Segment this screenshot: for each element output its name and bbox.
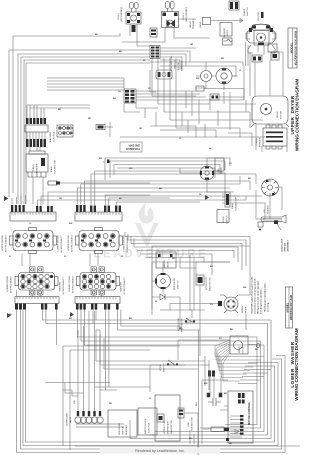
coil L1 windings [166, 2, 175, 12]
upper dryer title line2 [295, 79, 300, 152]
svg-text:*CAUTION: Label all wires prio: *CAUTION: Label all wires prior to dis- [251, 276, 254, 314]
svg-text:DOOR: DOOR [223, 216, 225, 223]
washer door switch [160, 360, 178, 372]
svg-text:TO/LINECO: TO/LINECO [126, 147, 140, 151]
wire harness mid [47, 78, 124, 90]
block A right label [58, 234, 64, 252]
wire left pads drop [12, 195, 26, 204]
wire loop 9 [78, 310, 258, 425]
gas valve coils box [215, 158, 224, 174]
wire strip4 drops [42, 310, 200, 391]
svg-text:BLADDER: BLADDER [125, 424, 128, 435]
svg-text:DRIVE: DRIVE [239, 346, 241, 353]
wire washer frame [45, 346, 180, 450]
dw label [74, 399, 76, 404]
arrow node C [70, 312, 74, 317]
pressure bladder box [108, 410, 137, 437]
sweep wire s8 [95, 171, 220, 205]
door lock wax motor [196, 275, 212, 291]
svg-text:DOOR LOCK: DOOR LOCK [282, 238, 284, 251]
svg-text:SWITCH: SWITCH [123, 426, 125, 435]
svg-text:IGNITOR: IGNITOR [258, 12, 260, 21]
blk labels [196, 401, 198, 406]
svg-text:WIRING CONNECTION DIAGRAM: WIRING CONNECTION DIAGRAM [294, 328, 299, 401]
svg-text:LOWER DRYER: LOWER DRYER [58, 235, 60, 252]
washer drive motor [230, 336, 260, 354]
svg-text:CONTROL: CONTROL [149, 422, 151, 433]
relay small box [96, 125, 113, 130]
wire top-left bus L4 [21, 57, 150, 204]
strip3 [15, 297, 59, 304]
svg-text:WASHER: WASHER [120, 282, 123, 292]
svg-text:WH: WH [129, 168, 133, 170]
aux text box 2 [138, 408, 157, 435]
svg-text:CONNECTOR: CONNECTOR [192, 417, 194, 431]
strip2 pads [76, 205, 121, 212]
motor control box [226, 391, 253, 443]
drain pump [218, 295, 248, 313]
wire washer mid bundle [96, 330, 209, 369]
capacitor symbol left of mc [207, 393, 222, 406]
interconnect block A [10, 228, 57, 254]
machine control lower pads [26, 139, 46, 147]
svg-text:VALVE: VALVE [199, 21, 202, 28]
svg-text:DISPENSER: DISPENSER [168, 421, 170, 434]
igniter assembly [246, 24, 276, 45]
wire loop 7 [85, 310, 265, 432]
svg-text:WAX MOTOR: WAX MOTOR [209, 277, 212, 291]
svg-text:servicing.: servicing. [267, 302, 270, 312]
svg-text:MAIN: MAIN [50, 166, 53, 172]
wire mc verticals up [27, 105, 90, 118]
caution text block [251, 276, 270, 314]
svg-text:INTERCONNECT: INTERCONNECT [61, 234, 63, 252]
coil L1 body [162, 12, 179, 28]
svg-text:WH: WH [243, 287, 247, 289]
valve coil small box [150, 28, 157, 37]
main connector lower-right [222, 192, 238, 211]
svg-text:MODEL: MODEL [289, 42, 293, 53]
heater label [264, 205, 270, 214]
interconnect block B [76, 228, 123, 254]
wire washer bus drops [180, 258, 230, 275]
arrow node A [4, 196, 9, 201]
wire top-left bus L2 [13, 33, 120, 193]
wire drain pump [170, 255, 250, 330]
wire J2 to motor [160, 48, 196, 70]
svg-text:MOTOR: MOTOR [281, 110, 283, 119]
wire bundle vertical left [199, 330, 210, 455]
svg-text:INTERCONNECT: INTERCONNECT [6, 234, 8, 252]
coil L2 body [126, 12, 141, 32]
washer pressure switch [155, 273, 180, 290]
svg-text:WH: WH [69, 223, 73, 225]
wire long loop 2 [21, 310, 282, 450]
wire loop 6 [93, 310, 268, 436]
strip4 pads [76, 304, 119, 310]
wire dryer mid mesh [150, 58, 263, 137]
svg-text:CONNECTOR: CONNECTOR [236, 197, 238, 211]
flame detector box [268, 44, 279, 60]
wire blocks to strips [17, 254, 102, 297]
lower dryer frame rect1 [105, 158, 230, 180]
svg-text:FLAME: FLAME [243, 8, 246, 16]
wire top-left bus L5 [24, 60, 150, 204]
svg-text:WH: WH [196, 78, 200, 80]
small transformer lower [178, 408, 184, 418]
broken belt switch [156, 70, 172, 79]
wire long loop 3 [23, 310, 278, 446]
thermal fuse [196, 86, 214, 91]
sweep wire s2 [41, 196, 240, 206]
connector bar lower right [203, 427, 239, 434]
node J3 [103, 160, 110, 164]
block B right label [124, 234, 130, 252]
interconnect block D [77, 267, 120, 296]
tolineco text [126, 144, 140, 152]
wire long loop 1 [17, 310, 286, 453]
svg-text:ASSEMBLY: ASSEMBLY [287, 240, 290, 252]
svg-text:WAX MOTOR: WAX MOTOR [170, 420, 173, 434]
flame switch label [243, 7, 249, 16]
svg-text:INTERCONNECT: INTERCONNECT [124, 276, 126, 294]
svg-text:COIL 2: COIL 2 [118, 12, 120, 20]
wire long loop 4 [26, 310, 275, 443]
svg-text:CONNECTOR: CONNECTOR [55, 160, 57, 174]
svg-text:TRANS-: TRANS- [32, 164, 35, 172]
svg-text:LOWER DRYER: LOWER DRYER [69, 275, 71, 292]
terminal strip 1 [10, 212, 56, 221]
svg-text:UPPER DRYER: UPPER DRYER [2, 235, 4, 251]
dispenser valve label [67, 412, 73, 425]
wire washer mid [152, 262, 230, 330]
svg-text:INTERCONNECT: INTERCONNECT [11, 275, 13, 293]
svg-text:VALVE: VALVE [69, 416, 72, 423]
line connector label [188, 417, 194, 431]
svg-text:BURNER: BURNER [224, 27, 226, 37]
igniter bracket [248, 45, 275, 53]
sweep wire s11 [116, 202, 200, 205]
sweep wire s7 [91, 174, 256, 205]
connector FA pads [118, 89, 136, 103]
svg-text:HEATER: HEATER [267, 205, 270, 214]
wire coil2 drop [122, 19, 210, 42]
svg-text:BLK: BLK [196, 401, 198, 406]
svg-text:WH: WH [204, 383, 208, 385]
svg-text:*Verify proper operation after: *Verify proper operation after [264, 283, 267, 312]
dispenser valve solenoids [75, 411, 124, 427]
watermark logo flame [135, 201, 159, 248]
flame sensor symbol [223, 38, 233, 45]
svg-text:PRESSURE: PRESSURE [119, 422, 121, 435]
wire dryer mid mesh2 [124, 100, 252, 146]
svg-text:DISPENSER: DISPENSER [67, 412, 69, 425]
wire mc area [202, 370, 228, 420]
door switch label box [217, 210, 229, 223]
svg-text:2ND DVR: 2ND DVR [128, 144, 140, 148]
upper dryer title [290, 95, 295, 134]
main harness connector label [50, 160, 57, 174]
wire dispenser up [65, 311, 100, 411]
svg-text:COIL 1: COIL 1 [183, 12, 185, 20]
svg-text:INTERCONNECT: INTERCONNECT [72, 234, 74, 252]
svg-text:SWITCH: SWITCH [164, 363, 166, 372]
coil L1 label [183, 6, 188, 22]
ignitor label [258, 12, 264, 21]
svg-text:connection when servicing cont: connection when servicing controls. [254, 278, 257, 314]
wire loop 8 [81, 310, 261, 429]
svg-text:VALVE: VALVE [189, 21, 192, 28]
sweep wire s10 [109, 198, 170, 205]
model box top [288, 28, 297, 68]
sweep wire s1 [38, 196, 247, 206]
svg-text:and dangerous operation.: and dangerous operation. [260, 288, 263, 314]
sweep wire s9 [105, 195, 150, 205]
secondary valve box [199, 18, 243, 29]
interconnect block C [15, 267, 58, 296]
leak pressure switch circle [200, 166, 214, 180]
burner body box [220, 23, 232, 38]
wire code labels [9, 34, 258, 445]
block A left label [2, 234, 8, 252]
transformer upper [255, 125, 287, 149]
svg-text:DOOR LOCK: DOOR LOCK [206, 276, 208, 290]
svg-text:WATER LEVEL: WATER LEVEL [144, 418, 147, 434]
svg-text:WASHER: WASHER [59, 282, 62, 292]
svg-text:Rendered by LeadVenture, Inc.: Rendered by LeadVenture, Inc. [135, 449, 185, 453]
wire transformer drops [30, 147, 43, 204]
door latch label [282, 238, 290, 251]
coil L2 label [118, 6, 123, 22]
aux connector pads washer [208, 371, 215, 377]
washer section frame [152, 246, 250, 315]
motor winding circle small [196, 62, 216, 82]
svg-text:INTERCONNECT: INTERCONNECT [127, 234, 129, 252]
drive motor dryer circle [216, 68, 238, 90]
hi-limit thermostat [252, 55, 262, 62]
svg-text:LINE: LINE [188, 422, 190, 427]
svg-text:INTERCONNECT: INTERCONNECT [63, 276, 65, 294]
svg-text:BODY: BODY [227, 29, 229, 36]
wire FA to right [124, 78, 244, 100]
sweep wire s6 [84, 181, 250, 204]
svg-text:LOWER DRYER: LOWER DRYER [124, 235, 126, 252]
model box lower [286, 287, 293, 328]
svg-text:MOTOR: MOTOR [243, 345, 245, 354]
svg-text:GAS: GAS [217, 168, 220, 173]
transformer lower-left [26, 151, 48, 177]
svg-text:DRAIN: DRAIN [241, 306, 244, 313]
water valve box [156, 252, 176, 268]
block D right label [120, 276, 127, 294]
svg-text:SWITCH: SWITCH [247, 7, 249, 16]
block B left label [68, 234, 74, 252]
wire top-left bus L3 [18, 54, 150, 204]
svg-text:UPPER DRYER: UPPER DRYER [68, 235, 70, 251]
svg-text:MAIN: MAIN [231, 203, 234, 209]
svg-text:MOTOR CONTROL: MOTOR CONTROL [247, 401, 251, 425]
lower dryer frame rect2 [110, 161, 225, 178]
svg-text:MLG45PDAGW, AGK, BWW: MLG45PDAGW, AGK, BWW [294, 30, 297, 65]
hi-limit connector pads [229, 1, 239, 10]
upper tub dispenser box [155, 395, 180, 441]
svg-text:INTERCONNECT: INTERCONNECT [73, 275, 75, 293]
svg-text:PRESSURE: PRESSURE [174, 277, 176, 290]
sweep wire s3 [48, 192, 234, 206]
wire right side verticals [244, 52, 287, 152]
wire igniter down [246, 42, 265, 66]
svg-text:CONTROL: CONTROL [54, 131, 56, 142]
sweep wire s5 [81, 176, 240, 204]
block D left label [69, 275, 75, 293]
lower dryer frame rect3 [114, 165, 220, 176]
svg-text:TRANS-: TRANS- [255, 138, 258, 146]
svg-text:WATER: WATER [163, 260, 166, 268]
machine control pads top [26, 118, 46, 124]
door lock switch washer [178, 317, 195, 332]
svg-text:MODEL: MODEL [286, 302, 290, 312]
arrow node B [7, 313, 11, 318]
svg-text:PUMP: PUMP [246, 306, 248, 313]
wire tolineco box [110, 122, 265, 152]
svg-text:WIRING CONNECTION DIAGRAM: WIRING CONNECTION DIAGRAM [295, 79, 300, 152]
wire top-left bus L6 [26, 63, 150, 204]
wire door area [256, 174, 282, 219]
wire washer top bus [125, 232, 250, 275]
check valve symbol [160, 294, 165, 300]
strip1 pads [11, 205, 53, 212]
wire top-left bus L1 [9, 50, 150, 197]
wire lower right misc [184, 413, 202, 455]
wire coil1 drop [130, 24, 150, 46]
machine control label [49, 131, 56, 142]
lower washer title line2 [294, 328, 299, 401]
rendered by bar [75, 446, 300, 454]
svg-text:(SECONDARY): (SECONDARY) [185, 6, 188, 22]
arrow node D [205, 195, 209, 200]
svg-text:MBF6500XXXW / A&M: MBF6500XXXW / A&M [290, 295, 293, 320]
svg-text:MACHINE: MACHINE [49, 131, 52, 142]
machine control body [25, 125, 48, 139]
svg-text:PRIMARY: PRIMARY [192, 19, 195, 29]
svg-text:UPPER TUB: UPPER TUB [164, 421, 166, 434]
svg-text:SWITCH: SWITCH [178, 280, 180, 289]
sweep wire s4 [77, 188, 230, 204]
block C left label [7, 275, 13, 293]
moisture sensor connector [57, 125, 73, 137]
drive motor upper right [251, 96, 289, 127]
svg-text:LOWER DRYER: LOWER DRYER [7, 275, 9, 292]
terminal strip 2 [75, 212, 122, 221]
centrifugal switch labels [170, 55, 184, 71]
wire dispenser bus [63, 383, 150, 397]
valve primary label [189, 19, 195, 29]
svg-text:Wiring errors can cause improp: Wiring errors can cause improper [257, 281, 260, 314]
wire door lock area [150, 285, 230, 392]
coil L2 windings [130, 3, 139, 13]
svg-text:FORMER: FORMER [260, 137, 262, 147]
svg-text:(SECONDARY): (SECONDARY) [120, 6, 123, 22]
strip4 [75, 297, 120, 304]
fuse inline [47, 181, 150, 185]
wire lower dryer misc [180, 158, 265, 219]
node J2 connector [150, 46, 160, 59]
door latch assembly [258, 215, 286, 231]
timer circle [262, 179, 279, 196]
lower washer title [290, 341, 295, 387]
wire loop 5 [96, 310, 271, 439]
svg-text:FORMER: FORMER [37, 163, 39, 173]
block C right label [59, 276, 66, 294]
svg-text:SWITCH: SWITCH [285, 243, 287, 252]
lower dryer frame rect4 [117, 168, 215, 178]
wire motor bundle [215, 340, 264, 381]
strip3 pads [15, 304, 58, 310]
thermostat small [210, 94, 219, 100]
svg-text:DRIVE: DRIVE [277, 111, 279, 118]
door switch label [223, 215, 229, 224]
